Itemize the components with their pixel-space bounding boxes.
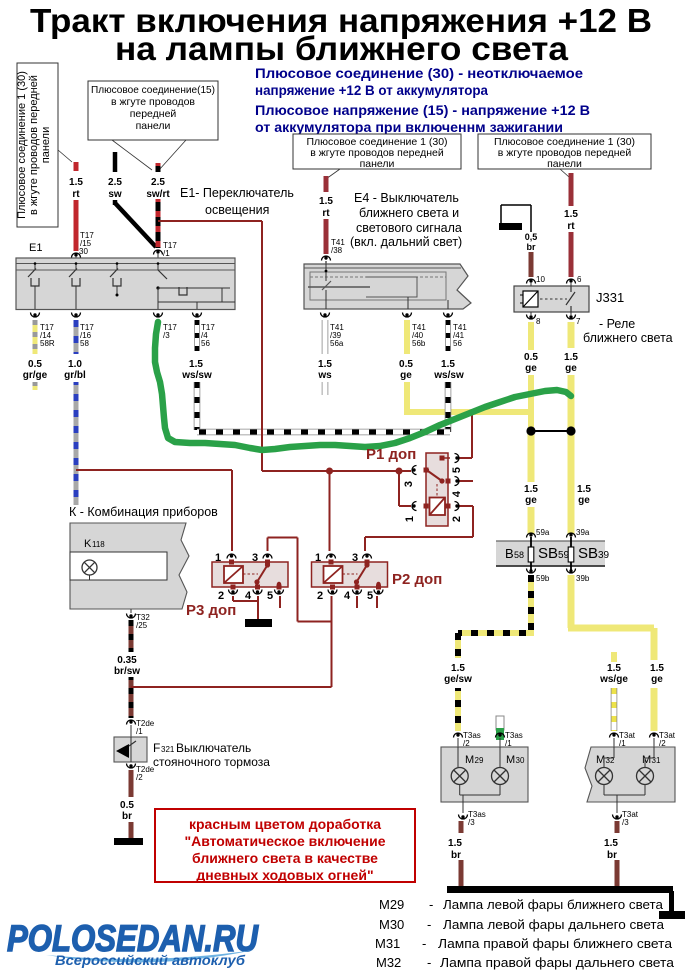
svg-text:M: M: [506, 754, 515, 766]
svg-text:стояночного тормоза: стояночного тормоза: [153, 755, 270, 769]
svg-text:1.5: 1.5: [441, 359, 455, 370]
svg-text:0.35: 0.35: [117, 655, 137, 666]
svg-text:/1: /1: [136, 727, 143, 736]
svg-text:Плюсовое напряжение (15) - нап: Плюсовое напряжение (15) - напряжение +1…: [255, 102, 590, 118]
svg-text:ближнего света в качестве: ближнего света в качестве: [192, 850, 378, 866]
svg-text:1.5: 1.5: [564, 352, 578, 363]
svg-text:панели: панели: [40, 127, 52, 163]
svg-text:10: 10: [536, 275, 545, 284]
svg-text:ws/sw: ws/sw: [433, 370, 464, 381]
svg-text:58R: 58R: [40, 339, 55, 348]
svg-text:B: B: [505, 546, 514, 561]
svg-text:1: 1: [404, 516, 416, 522]
svg-text:39: 39: [598, 550, 610, 561]
svg-text:56a: 56a: [330, 339, 344, 348]
svg-text:ws: ws: [317, 370, 332, 381]
svg-text:sw/rt: sw/rt: [146, 189, 170, 200]
svg-text:56b: 56b: [412, 339, 426, 348]
svg-text:дневных ходовых огней": дневных ходовых огней": [196, 867, 373, 883]
svg-text:"Автоматическое включение: "Автоматическое включение: [184, 833, 385, 849]
svg-text:31: 31: [652, 756, 661, 765]
svg-text:ge: ge: [525, 363, 537, 374]
svg-text:(вкл. дальний свет): (вкл. дальний свет): [350, 235, 462, 249]
svg-text:0.5: 0.5: [120, 800, 134, 811]
svg-text:30: 30: [516, 756, 525, 765]
svg-text:59a: 59a: [536, 528, 550, 537]
svg-text:ge: ge: [578, 495, 590, 506]
svg-text:rt: rt: [322, 208, 330, 219]
svg-text:ge: ge: [651, 674, 663, 685]
svg-text:ge/sw: ge/sw: [444, 674, 472, 685]
svg-text:1.5: 1.5: [319, 196, 333, 207]
svg-text:/25: /25: [136, 621, 148, 630]
svg-text:M31: M31: [375, 936, 400, 951]
svg-text:К - Комбинация приборов: К - Комбинация приборов: [69, 505, 218, 519]
svg-text:1.5: 1.5: [451, 663, 465, 674]
svg-text:4: 4: [344, 590, 351, 602]
svg-text:2.5: 2.5: [108, 177, 122, 188]
svg-text:1.5: 1.5: [607, 663, 621, 674]
svg-text:M30: M30: [379, 917, 404, 932]
svg-text:M: M: [465, 754, 474, 766]
svg-text:br/sw: br/sw: [114, 666, 140, 677]
svg-text:-: -: [427, 917, 431, 932]
svg-text:gr/bl: gr/bl: [64, 370, 86, 381]
svg-text:/3: /3: [468, 818, 475, 827]
svg-text:Р1 доп: Р1 доп: [366, 446, 416, 463]
svg-text:0,5: 0,5: [525, 232, 538, 242]
svg-text:1: 1: [215, 552, 221, 564]
svg-text:панели: панели: [136, 120, 171, 132]
svg-text:59b: 59b: [536, 574, 550, 583]
svg-text:Лампа левой фары дальнего свет: Лампа левой фары дальнего света: [443, 917, 665, 932]
svg-text:Плюсовое соединение(15): Плюсовое соединение(15): [91, 84, 215, 96]
svg-text:светового сигнала: светового сигнала: [356, 221, 462, 235]
svg-text:в жгуте проводов: в жгуте проводов: [111, 96, 195, 108]
svg-text:5: 5: [451, 467, 463, 473]
svg-text:ближнего света: ближнего света: [583, 331, 673, 345]
svg-text:ближнего света и: ближнего света и: [359, 206, 459, 220]
svg-text:E1- Переключатель: E1- Переключатель: [180, 186, 294, 200]
svg-text:7: 7: [576, 317, 581, 326]
svg-text:6: 6: [577, 275, 582, 284]
svg-text:1.5: 1.5: [318, 359, 332, 370]
svg-text:ge: ge: [400, 370, 412, 381]
svg-text:rt: rt: [72, 189, 80, 200]
svg-text:Р2 доп: Р2 доп: [392, 571, 442, 588]
svg-text:1.5: 1.5: [564, 209, 578, 220]
svg-text:2: 2: [218, 590, 224, 602]
svg-text:-: -: [422, 936, 426, 951]
svg-text:K: K: [84, 538, 92, 550]
svg-text:- Реле: - Реле: [599, 317, 635, 331]
svg-text:rt: rt: [567, 221, 575, 232]
svg-text:br: br: [527, 242, 536, 252]
svg-text:от аккумулятора при включеннм: от аккумулятора при включеннм зажигании: [255, 119, 563, 135]
svg-text:0.5: 0.5: [28, 359, 42, 370]
svg-text:1.5: 1.5: [524, 484, 538, 495]
svg-text:ge: ge: [525, 495, 537, 506]
svg-text:8: 8: [536, 317, 541, 326]
svg-text:Р3 доп: Р3 доп: [186, 602, 236, 619]
svg-text:1.5: 1.5: [448, 838, 462, 849]
svg-text:E4 - Выключатель: E4 - Выключатель: [354, 191, 459, 205]
svg-text:56: 56: [201, 339, 210, 348]
svg-text:1.5: 1.5: [189, 359, 203, 370]
svg-text:56: 56: [453, 339, 462, 348]
svg-text:передней: передней: [130, 108, 177, 120]
svg-text:Выключатель: Выключатель: [176, 741, 251, 755]
svg-text:3: 3: [352, 552, 358, 564]
svg-text:br: br: [122, 811, 132, 822]
svg-text:в жгуте проводов передней: в жгуте проводов передней: [28, 75, 40, 215]
svg-text:0.5: 0.5: [524, 352, 538, 363]
svg-text:58: 58: [514, 550, 524, 560]
svg-text:39a: 39a: [576, 528, 590, 537]
svg-text:напряжение +12 В от аккумулято: напряжение +12 В от аккумулятора: [255, 82, 488, 98]
svg-text:ge: ge: [565, 363, 577, 374]
svg-text:M29: M29: [379, 897, 404, 912]
svg-text:2.5: 2.5: [151, 177, 165, 188]
svg-text:Лампа левой фары ближнего свет: Лампа левой фары ближнего света: [443, 897, 664, 912]
svg-text:/1: /1: [163, 249, 170, 258]
svg-text:sw: sw: [108, 189, 122, 200]
svg-text:1: 1: [315, 552, 321, 564]
svg-text:gr/ge: gr/ge: [23, 370, 48, 381]
svg-text:4: 4: [245, 590, 252, 602]
svg-text:SB: SB: [538, 545, 558, 562]
svg-text:118: 118: [92, 540, 105, 549]
svg-text:39b: 39b: [576, 574, 590, 583]
svg-text:-: -: [427, 955, 431, 970]
svg-text:SB: SB: [578, 545, 598, 562]
svg-text:1.0: 1.0: [68, 359, 82, 370]
svg-text:на лампы ближнего света: на лампы ближнего света: [115, 30, 569, 67]
svg-text:3: 3: [252, 552, 258, 564]
svg-text:5: 5: [267, 590, 273, 602]
svg-text:панели: панели: [547, 158, 582, 170]
svg-text:панели: панели: [360, 158, 395, 170]
svg-text:Всероссийский автоклуб: Всероссийский автоклуб: [55, 953, 246, 968]
svg-text:E1: E1: [29, 242, 42, 254]
svg-text:/2: /2: [136, 773, 143, 782]
svg-text:br: br: [451, 850, 461, 861]
svg-text:321: 321: [161, 745, 175, 754]
svg-text:1.5: 1.5: [650, 663, 664, 674]
svg-text:красным цветом доработка: красным цветом доработка: [189, 816, 381, 832]
svg-text:Лампа правой фары дальнего све: Лампа правой фары дальнего света: [440, 955, 675, 970]
svg-text:F: F: [153, 741, 160, 755]
svg-text:3: 3: [403, 481, 415, 487]
svg-text:освещения: освещения: [205, 203, 269, 217]
svg-text:29: 29: [475, 756, 484, 765]
svg-text:br: br: [607, 850, 617, 861]
svg-text:1.5: 1.5: [69, 177, 83, 188]
svg-text:5: 5: [367, 590, 373, 602]
svg-text:0.5: 0.5: [399, 359, 413, 370]
svg-text:ws/sw: ws/sw: [181, 370, 212, 381]
svg-text:-: -: [429, 897, 433, 912]
svg-text:M: M: [642, 754, 651, 766]
svg-text:2: 2: [451, 516, 463, 522]
svg-text:Плюсовое соединение 1 (30): Плюсовое соединение 1 (30): [16, 71, 28, 219]
svg-text:/3: /3: [622, 818, 629, 827]
svg-text:M32: M32: [376, 955, 401, 970]
svg-text:ws/ge: ws/ge: [599, 674, 628, 685]
svg-text:30: 30: [79, 247, 88, 256]
svg-text:58: 58: [80, 339, 89, 348]
svg-text:2: 2: [317, 590, 323, 602]
svg-text:1.5: 1.5: [604, 838, 618, 849]
svg-text:Плюсовое соединение (30) - нео: Плюсовое соединение (30) - неотключаемое: [255, 65, 583, 81]
svg-text:1.5: 1.5: [577, 484, 591, 495]
svg-text:/3: /3: [163, 331, 170, 340]
svg-text:4: 4: [451, 490, 463, 497]
svg-text:J331: J331: [596, 290, 624, 305]
svg-text:Лампа правой фары ближнего све: Лампа правой фары ближнего света: [438, 936, 673, 951]
svg-text:/38: /38: [331, 246, 343, 255]
